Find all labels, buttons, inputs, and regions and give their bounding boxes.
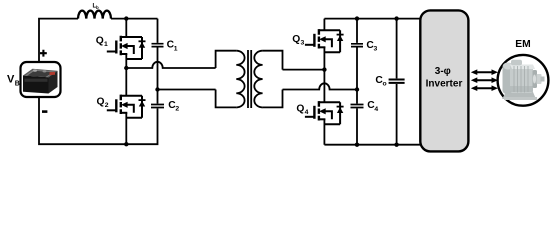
svg-text:Q: Q bbox=[296, 103, 304, 114]
svg-text:Inverter: Inverter bbox=[426, 79, 463, 90]
svg-text:Q: Q bbox=[97, 97, 105, 108]
svg-text:2: 2 bbox=[175, 106, 179, 113]
svg-text:Q: Q bbox=[292, 34, 300, 45]
svg-text:3: 3 bbox=[374, 46, 378, 53]
svg-text:3: 3 bbox=[301, 39, 305, 46]
svg-text:Q: Q bbox=[96, 35, 104, 46]
svg-text:1: 1 bbox=[104, 41, 108, 48]
svg-text:EM: EM bbox=[515, 39, 530, 50]
svg-text:4: 4 bbox=[374, 106, 378, 113]
svg-text:3-φ: 3-φ bbox=[435, 66, 451, 77]
svg-text:2: 2 bbox=[105, 102, 109, 109]
svg-text:B: B bbox=[15, 81, 20, 88]
svg-text:4: 4 bbox=[305, 109, 309, 116]
svg-text:o: o bbox=[383, 81, 387, 88]
svg-text:V: V bbox=[7, 74, 15, 86]
svg-text:b: b bbox=[96, 5, 99, 10]
svg-text:1: 1 bbox=[174, 45, 178, 52]
